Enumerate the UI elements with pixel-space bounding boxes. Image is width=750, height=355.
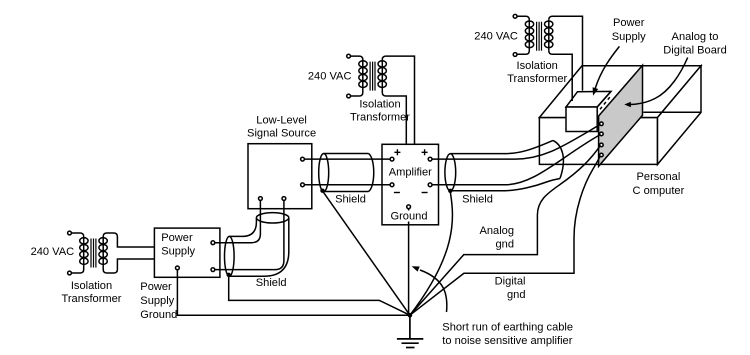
svg-text:Digital: Digital <box>495 276 526 288</box>
svg-text:240 VAC: 240 VAC <box>308 71 352 83</box>
computer top face <box>539 66 701 118</box>
svg-text:Shield: Shield <box>335 193 366 205</box>
ground symbol (earth) <box>397 315 423 347</box>
svg-text:Supply: Supply <box>161 246 195 258</box>
power supply box (computer) front face <box>566 107 597 132</box>
svg-text:Power: Power <box>140 281 172 293</box>
board pin 3 <box>600 143 604 147</box>
svg-text:Isolation: Isolation <box>517 60 558 72</box>
shield cable 1 end arc <box>369 154 374 192</box>
arrow power supply callout <box>593 46 620 95</box>
wire shield3 ground run <box>410 192 453 315</box>
svg-text:Low-Level: Low-Level <box>256 114 307 126</box>
svg-text:C omputer: C omputer <box>633 185 685 197</box>
svg-text:Amplifier: Amplifier <box>389 167 432 179</box>
node shield1 tap <box>320 189 324 193</box>
analog to digital board (gray) <box>599 65 643 166</box>
shield cable 3 tube bottom <box>450 179 560 191</box>
svg-text:Power: Power <box>161 232 193 244</box>
board pin 4 <box>600 153 604 157</box>
node amp left terminal - <box>390 183 394 187</box>
wire power-supply-ground run <box>177 270 410 315</box>
wire PS top output through elbow to SS <box>215 200 261 242</box>
minus sign right <box>422 192 428 194</box>
plus sign right <box>422 149 428 155</box>
svg-text:240 VAC: 240 VAC <box>31 246 75 258</box>
svg-text:gnd: gnd <box>507 289 526 301</box>
node SS bottom terminal right <box>282 197 286 201</box>
wire SS to amplifier - <box>304 184 390 186</box>
wire T1 secondary backbone <box>102 237 104 270</box>
plus sign left <box>394 149 400 155</box>
node amp right terminal - <box>428 183 432 187</box>
svg-text:Supply: Supply <box>612 31 646 43</box>
node shield2 tap <box>227 273 231 277</box>
svg-text:Ground: Ground <box>140 309 177 321</box>
svg-text:Analog: Analog <box>479 225 514 237</box>
svg-text:Shield: Shield <box>256 277 287 289</box>
shield cable 2 elbow tube inner <box>229 218 256 237</box>
node SS bottom terminal left <box>259 197 263 201</box>
wire PS bottom output through elbow to SS <box>215 200 284 269</box>
svg-text:Digital Board: Digital Board <box>663 45 727 57</box>
shield cable 2 elbow tube outer <box>229 218 288 276</box>
node amp ground terminal <box>407 205 411 209</box>
wire T2 secondary backbone <box>381 60 383 93</box>
shield cable 2 top opening ellipse <box>256 213 288 223</box>
wire T3 secondary backbone <box>548 20 550 51</box>
svg-text:Transformer: Transformer <box>62 293 122 305</box>
node PS right terminal top <box>211 241 215 245</box>
wire T1 secondary top output to PS <box>103 233 154 247</box>
power supply box (computer) top face <box>566 91 611 107</box>
computer interior bottom-back edge <box>643 111 701 113</box>
arrow analog-digital board callout <box>624 58 687 108</box>
arrow short-run earthing callout <box>412 266 447 312</box>
wire T3 secondary bottom to computer <box>549 51 572 101</box>
power supply box (computer) right edge <box>597 91 611 107</box>
wire amplifier minus output to pin2 <box>432 135 600 185</box>
node shield3 tap <box>448 189 452 193</box>
svg-text:Shield: Shield <box>462 193 493 205</box>
node PS ground terminal <box>176 266 180 270</box>
transformer T3 <box>513 14 553 56</box>
wire T2 secondary top to amplifier <box>382 56 414 144</box>
svg-text:Transformer: Transformer <box>507 73 567 85</box>
node amp left terminal + <box>390 157 394 161</box>
shield cable 3 end arc <box>553 140 563 178</box>
transformer T1 <box>68 231 108 275</box>
wire amplifier ground run <box>408 209 410 315</box>
svg-text:Analog to: Analog to <box>672 31 719 43</box>
shield cable 3 tube top <box>450 140 553 153</box>
svg-text:Transformer: Transformer <box>350 111 410 123</box>
amplifier box U1 <box>382 144 439 225</box>
svg-text:240 VAC: 240 VAC <box>474 30 518 42</box>
svg-text:Short run of earthing cable: Short run of earthing cable <box>442 322 573 334</box>
node SS right terminal - <box>301 183 305 187</box>
shield cable 1 ellipse <box>319 154 329 192</box>
node star ground junction <box>408 313 413 318</box>
node PS right terminal bottom <box>211 268 215 272</box>
wire T2 secondary bottom to amplifier <box>382 93 406 145</box>
power supply box (left) <box>154 228 220 277</box>
wire SS to amplifier + <box>304 158 390 160</box>
computer right face <box>658 66 702 165</box>
svg-text:Power: Power <box>613 17 645 29</box>
svg-text:Isolation: Isolation <box>359 98 400 110</box>
node SS right terminal + <box>301 157 305 161</box>
wire shield2 ground run <box>229 275 410 315</box>
svg-text:Isolation: Isolation <box>71 280 112 292</box>
low-level signal source box <box>248 144 312 209</box>
wire digital gnd run <box>410 156 600 315</box>
svg-text:to noise sensitive amplifier: to noise sensitive amplifier <box>442 335 572 347</box>
wire T3 secondary top to PS box <box>549 16 583 90</box>
shield cable 3 ellipse <box>445 154 456 191</box>
wire T1 secondary bottom output to PS <box>103 259 154 273</box>
svg-text:Signal Source: Signal Source <box>247 128 316 140</box>
transformer T2 <box>347 54 387 98</box>
svg-text:Supply: Supply <box>140 295 174 307</box>
minus sign left <box>394 192 400 194</box>
svg-text:gnd: gnd <box>495 238 514 250</box>
computer front face <box>539 118 657 165</box>
power supply box (computer) hidden edge (dashed) <box>598 97 610 112</box>
svg-text:Ground: Ground <box>390 211 427 223</box>
board pin 1 <box>600 122 604 126</box>
node amp right terminal + <box>428 157 432 161</box>
wire shield1 ground run <box>323 191 410 315</box>
wire amplifier plus output to pin1 <box>432 124 600 159</box>
board pin 2 <box>600 132 604 136</box>
label Ground (amplifier) <box>389 211 429 222</box>
shield cable 1 tube <box>324 154 369 192</box>
wire analog gnd run <box>410 146 600 316</box>
shield cable 2 ellipse <box>225 236 235 276</box>
svg-text:Personal: Personal <box>637 171 681 183</box>
